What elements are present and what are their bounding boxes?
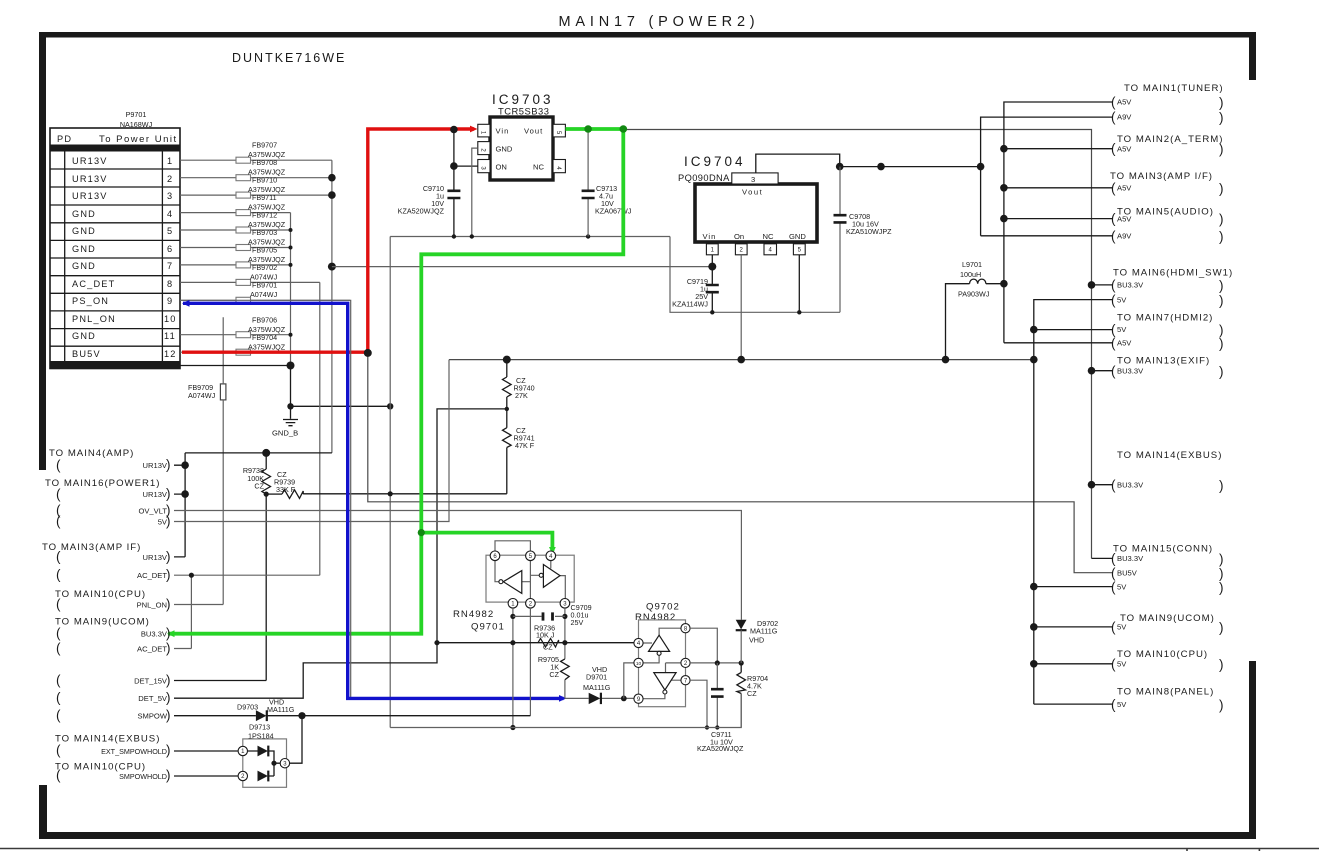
wire ground bus bottom — [390, 694, 741, 728]
svg-text:SMPOW: SMPOW — [137, 712, 167, 721]
svg-text:A5V: A5V — [1117, 339, 1132, 348]
svg-text:(: ( — [56, 673, 61, 688]
pin 7 — [681, 676, 690, 685]
svg-text:(: ( — [1111, 566, 1116, 581]
svg-text:TO MAIN1(TUNER): TO MAIN1(TUNER) — [1124, 83, 1224, 94]
svg-text:(: ( — [56, 487, 61, 502]
svg-text:10: 10 — [164, 314, 177, 324]
svg-text:TO MAIN8(PANEL): TO MAIN8(PANEL) — [1117, 687, 1214, 698]
left port TO MAIN4(AMP) — [49, 448, 171, 473]
svg-text:(: ( — [56, 597, 61, 612]
svg-text:5V: 5V — [1117, 623, 1127, 632]
ground GND_B — [272, 406, 298, 437]
svg-text:TO MAIN13(EXIF): TO MAIN13(EXIF) — [1117, 356, 1210, 367]
wire GND bus — [290, 213, 292, 366]
svg-text:SMPOWHOLD: SMPOWHOLD — [119, 772, 167, 781]
svg-text:ON: ON — [496, 163, 507, 172]
wire GND_B drop — [291, 366, 391, 407]
left port DET_15V — [56, 673, 171, 688]
wire red BU5V — [182, 129, 474, 352]
pin 1 — [508, 599, 518, 609]
svg-text:): ) — [1219, 566, 1224, 581]
svg-text:MAIN17 (POWER2): MAIN17 (POWER2) — [559, 14, 760, 30]
svg-text:27K: 27K — [515, 391, 528, 400]
fuse bead FB9710 — [180, 176, 332, 199]
node divider tap — [505, 407, 509, 411]
svg-text:(: ( — [56, 549, 61, 564]
svg-text:TO MAIN10(CPU): TO MAIN10(CPU) — [55, 762, 146, 773]
Q9701 inverter B — [543, 565, 560, 588]
svg-text:33K F: 33K F — [276, 485, 296, 494]
svg-text:AC_DET: AC_DET — [137, 645, 167, 654]
inductor L9701 — [946, 260, 1004, 360]
fuse bead FB9704 — [180, 333, 368, 355]
svg-text:): ) — [1219, 212, 1224, 227]
svg-text:MA111G: MA111G — [267, 705, 295, 714]
wire UR13V row rail — [174, 453, 332, 557]
svg-text:TO MAIN14(EXBUS): TO MAIN14(EXBUS) — [1117, 450, 1222, 461]
svg-text:): ) — [1219, 698, 1224, 713]
diode D9701 — [565, 665, 634, 704]
capacitor C9711 — [697, 663, 744, 753]
svg-text:): ) — [1219, 364, 1224, 379]
svg-text:(: ( — [1111, 364, 1116, 379]
svg-text:NC: NC — [763, 232, 774, 241]
svg-text:PA903WJ: PA903WJ — [958, 290, 990, 299]
svg-text:): ) — [166, 514, 171, 529]
svg-text:TO MAIN3(AMP I/F): TO MAIN3(AMP I/F) — [1110, 171, 1213, 182]
wire IC9704 ground bus — [670, 237, 840, 313]
wire comparator ref rail — [437, 642, 634, 644]
right port TO MAIN13(EXIF) — [1111, 356, 1224, 380]
pin 4 — [546, 551, 556, 561]
svg-text:(: ( — [56, 514, 61, 529]
svg-text:CZ: CZ — [747, 689, 757, 698]
diode D9702 — [736, 619, 778, 663]
svg-text:(: ( — [1111, 110, 1116, 125]
svg-text:FB9712: FB9712 — [252, 211, 277, 220]
right port TO MAIN3(AMP I/F) — [1110, 171, 1224, 196]
svg-text:DET_5V: DET_5V — [138, 694, 168, 703]
svg-text:3: 3 — [751, 175, 755, 184]
svg-text:To Power Unit: To Power Unit — [99, 134, 178, 145]
svg-text:AC_DET: AC_DET — [137, 571, 167, 580]
svg-text:Vin: Vin — [496, 127, 510, 136]
transistor array Q9702 — [634, 602, 690, 707]
revision table edge — [0, 849, 1319, 851]
right port TO MAIN8(PANEL) — [1111, 687, 1224, 713]
border frame left lower — [39, 785, 47, 839]
svg-text:GND: GND — [72, 331, 96, 341]
svg-text:TO MAIN9(UCOM): TO MAIN9(UCOM) — [55, 617, 150, 628]
right port TO MAIN9(UCOM) — [1111, 613, 1224, 635]
svg-text:25V: 25V — [571, 618, 584, 627]
node red C9710 tap — [450, 126, 458, 134]
wire green branch to Q9701 — [421, 533, 552, 551]
svg-text:2: 2 — [167, 174, 173, 184]
wire divider tap rail — [174, 409, 507, 698]
right port TO MAIN2(A_TERM) — [1111, 134, 1224, 157]
svg-text:A9V: A9V — [1117, 232, 1132, 241]
svg-text:TO MAIN9(UCOM): TO MAIN9(UCOM) — [1120, 613, 1215, 624]
wire AC_DET vertical — [319, 282, 321, 575]
wire EXT_SMPOWHOLD — [174, 750, 238, 752]
border frame left upper — [39, 32, 46, 470]
capacitor C9719 — [672, 255, 719, 312]
wire SMPOWHOLD — [174, 775, 238, 777]
left port TO MAIN14(EXBUS) — [55, 734, 171, 758]
border frame bottom — [39, 832, 1256, 839]
left port TO MAIN10(CPU) — [55, 589, 171, 612]
svg-text:(: ( — [56, 768, 61, 783]
wire GND to table — [180, 365, 291, 367]
wire AC_DET rail — [174, 575, 320, 648]
svg-text:TO MAIN4(AMP): TO MAIN4(AMP) — [49, 448, 134, 459]
wire IC9704 Vout to rail — [756, 154, 840, 173]
svg-text:(: ( — [1111, 620, 1116, 635]
svg-text:): ) — [1219, 293, 1224, 308]
svg-text:UR13V: UR13V — [143, 553, 168, 562]
resistor R9740 — [503, 360, 535, 409]
svg-text:): ) — [1219, 110, 1224, 125]
svg-text:5V: 5V — [1117, 660, 1127, 669]
wire BU5V gray drop — [368, 353, 1113, 573]
wire Q9702 pin7 to ground — [690, 680, 707, 727]
svg-text:(: ( — [1111, 580, 1116, 595]
wire ON pin tie — [454, 165, 478, 167]
svg-text:(: ( — [1111, 478, 1116, 493]
svg-text:11: 11 — [164, 331, 176, 341]
svg-text:): ) — [166, 743, 171, 758]
svg-text:(: ( — [1111, 229, 1116, 244]
svg-text:TO MAIN14(EXBUS): TO MAIN14(EXBUS) — [55, 734, 160, 745]
svg-text:5V: 5V — [1117, 296, 1127, 305]
svg-text:): ) — [1219, 142, 1224, 157]
svg-text:TO MAIN5(AUDIO): TO MAIN5(AUDIO) — [1117, 207, 1214, 218]
svg-text:A5V: A5V — [1117, 184, 1132, 193]
svg-text:): ) — [166, 626, 171, 641]
svg-text:): ) — [1219, 181, 1224, 196]
pin 10 — [634, 658, 643, 667]
svg-text:NC: NC — [533, 163, 544, 172]
svg-text:CZ: CZ — [543, 643, 553, 652]
svg-text:GND: GND — [72, 226, 96, 236]
svg-text:6: 6 — [167, 244, 173, 254]
svg-text:10K J: 10K J — [536, 631, 555, 640]
svg-text:): ) — [1219, 580, 1224, 595]
svg-text:Q9702: Q9702 — [646, 602, 680, 613]
wire blue PS_ON — [183, 303, 564, 698]
left port DET_5V — [56, 690, 171, 705]
wire A9V bus — [981, 117, 1113, 236]
node SMPOW junction — [298, 712, 305, 719]
wire 5V bus — [1034, 300, 1113, 704]
svg-text:TO MAIN6(HDMI_SW1): TO MAIN6(HDMI_SW1) — [1113, 268, 1233, 279]
svg-text:5V: 5V — [1117, 325, 1127, 334]
svg-text:A074WJ: A074WJ — [188, 391, 216, 400]
svg-text:(: ( — [56, 458, 61, 473]
svg-text:BU3.3V: BU3.3V — [1117, 554, 1144, 563]
svg-text:4: 4 — [167, 209, 173, 219]
svg-text:FB9707: FB9707 — [252, 141, 277, 150]
wire A5V bus — [1004, 102, 1113, 343]
wire BU3.3V bus rows — [1092, 285, 1114, 559]
resistor R9738 — [174, 453, 271, 681]
svg-text:GND: GND — [72, 209, 96, 219]
right port TO MAIN5(AUDIO) — [1111, 207, 1224, 245]
resistor R9705 — [538, 655, 569, 698]
svg-text:7: 7 — [167, 261, 173, 271]
diode array D9713 — [238, 723, 289, 788]
border frame right upper — [1249, 32, 1256, 80]
svg-text:8: 8 — [167, 279, 173, 289]
wire R9741 bottom rail — [303, 493, 507, 495]
op-amp IC9704 regulator — [678, 154, 817, 255]
svg-text:): ) — [166, 457, 171, 472]
wire UR13V bus — [331, 160, 333, 453]
right port TO MAIN14(EXBUS) — [1111, 450, 1224, 493]
svg-text:A9V: A9V — [1117, 113, 1132, 122]
svg-text:12: 12 — [164, 349, 177, 359]
svg-text:OV_VLT: OV_VLT — [138, 507, 167, 516]
svg-text:): ) — [166, 549, 171, 564]
node red corner — [364, 349, 372, 357]
diode D9703 — [237, 698, 295, 722]
resistor R9741 — [503, 409, 535, 494]
svg-text:UR13V: UR13V — [72, 156, 108, 166]
svg-text:TO MAIN10(CPU): TO MAIN10(CPU) — [1117, 649, 1208, 660]
pin 3 — [280, 759, 289, 768]
pin 8 — [681, 624, 690, 633]
op-amp IC9703 regulator — [478, 92, 566, 180]
svg-text:UR13V: UR13V — [72, 191, 108, 201]
left port TO MAIN3(AMP IF) — [42, 542, 171, 582]
svg-text:KZA520WJQZ: KZA520WJQZ — [697, 744, 744, 753]
svg-text:(: ( — [56, 708, 61, 723]
wire 5V main rail — [449, 359, 1034, 361]
svg-text:TO MAIN2(A_TERM): TO MAIN2(A_TERM) — [1117, 134, 1223, 145]
left port SMPOW — [56, 708, 171, 723]
right port TO MAIN15(CONN) — [1111, 544, 1224, 596]
svg-text:TO MAIN7(HDMI2): TO MAIN7(HDMI2) — [1117, 313, 1213, 324]
svg-text:GND: GND — [496, 145, 513, 154]
svg-text:KZA114WJ: KZA114WJ — [672, 300, 708, 309]
svg-text:UR13V: UR13V — [143, 490, 168, 499]
svg-text:FB9706: FB9706 — [252, 316, 277, 325]
wire D9701 to Q9702 pin10 — [624, 663, 634, 699]
green arrowhead down — [549, 547, 556, 555]
wire OV_VLT rail — [174, 511, 741, 620]
fuse bead FB9706 — [180, 316, 291, 338]
resistor R9704 — [737, 663, 768, 728]
svg-text:47K F: 47K F — [515, 441, 535, 450]
svg-text:KZA510WJPZ: KZA510WJPZ — [846, 227, 892, 236]
svg-text:TO MAIN16(POWER1): TO MAIN16(POWER1) — [45, 478, 160, 489]
svg-text:(: ( — [1111, 141, 1116, 156]
wire BU3.3V rail to right — [623, 130, 1091, 559]
svg-text:BU3.3V: BU3.3V — [1117, 281, 1144, 290]
svg-text:(: ( — [1111, 551, 1116, 566]
pin 2 — [526, 599, 536, 609]
blue arrowhead right — [559, 695, 567, 702]
svg-text:PNL_ON: PNL_ON — [137, 601, 167, 610]
svg-text:FB9703: FB9703 — [252, 228, 277, 237]
right port TO MAIN7(HDMI2) — [1111, 313, 1224, 352]
svg-text:9: 9 — [167, 296, 173, 306]
wire Q9701 pin1 drop — [512, 608, 514, 727]
svg-text:GND_B: GND_B — [272, 429, 298, 438]
svg-text:3: 3 — [167, 191, 173, 201]
wire Q9701 pin2 drop — [529, 608, 531, 716]
svg-text:BU3.3V: BU3.3V — [1117, 367, 1144, 376]
fuse bead FB9702 — [180, 263, 320, 285]
svg-text:MA111G: MA111G — [750, 627, 778, 636]
fuse bead FB9707 — [180, 141, 332, 164]
svg-text:): ) — [166, 597, 171, 612]
svg-text:FB9710: FB9710 — [252, 176, 277, 185]
svg-text:TCR5SB33: TCR5SB33 — [498, 106, 549, 117]
fuse bead FB9705 — [180, 246, 291, 268]
svg-text:BU3.3V: BU3.3V — [141, 630, 168, 639]
svg-text:FB9701: FB9701 — [252, 281, 277, 290]
svg-text:FB9711: FB9711 — [252, 193, 277, 202]
svg-text:(: ( — [56, 626, 61, 641]
svg-text:(: ( — [1111, 95, 1116, 110]
svg-text:A074WJ: A074WJ — [250, 290, 278, 299]
svg-text:(: ( — [1111, 657, 1116, 672]
capacitor C9709 — [513, 603, 592, 627]
svg-text:): ) — [166, 567, 171, 582]
fuse bead FB9703 — [180, 228, 291, 251]
resistor R9736 — [534, 624, 559, 652]
svg-text:PQ090DNA: PQ090DNA — [678, 173, 730, 183]
svg-text:A5V: A5V — [1117, 145, 1132, 154]
node IC9704 Vin — [708, 263, 716, 271]
svg-text:(: ( — [56, 743, 61, 758]
Q9702 inverter C — [649, 635, 670, 651]
svg-text:A5V: A5V — [1117, 98, 1132, 107]
right port TO MAIN6(HDMI_SW1) — [1111, 268, 1233, 309]
wire ground bus left drop — [389, 237, 391, 728]
wire Q9702 pin2 rail — [690, 662, 741, 664]
svg-text:): ) — [166, 641, 171, 656]
Q9701 inverter A — [503, 571, 522, 594]
svg-text:FB9702: FB9702 — [252, 263, 277, 272]
border frame right lower — [1249, 661, 1256, 839]
svg-text:A5V: A5V — [1117, 215, 1132, 224]
svg-text:GND: GND — [72, 244, 96, 254]
svg-text:): ) — [1219, 620, 1224, 635]
svg-text:GND: GND — [72, 261, 96, 271]
node A9V rail junction — [836, 163, 844, 171]
pin 2 — [238, 771, 247, 780]
fuse bead FB9711 — [180, 193, 291, 216]
svg-text:(: ( — [1111, 697, 1116, 712]
svg-text:BU5V: BU5V — [72, 349, 101, 359]
right port TO MAIN10(CPU) — [1111, 649, 1224, 672]
svg-text:): ) — [1219, 278, 1224, 293]
wire UR13V to IC9704 — [332, 266, 712, 268]
wire ground bus upper — [390, 236, 670, 238]
svg-text:P9701: P9701 — [126, 110, 147, 119]
svg-text:1: 1 — [167, 156, 173, 166]
svg-text:DUNTKE716WE: DUNTKE716WE — [232, 51, 346, 65]
svg-text:): ) — [1219, 95, 1224, 110]
svg-text:GND: GND — [789, 232, 806, 241]
svg-text:(: ( — [1111, 211, 1116, 226]
svg-text:KZA520WJQZ: KZA520WJQZ — [398, 207, 445, 216]
wire SMPOW rail — [174, 715, 530, 717]
svg-text:): ) — [166, 768, 171, 783]
svg-text:): ) — [1219, 478, 1224, 493]
svg-text:FB9708: FB9708 — [252, 158, 277, 167]
svg-text:(: ( — [56, 641, 61, 656]
pin 2 — [681, 658, 690, 667]
green arrowhead left — [167, 630, 175, 637]
svg-text:PS_ON: PS_ON — [72, 296, 109, 306]
fuse bead FB9709 — [188, 383, 226, 400]
wire green BU3.3V — [168, 129, 623, 634]
node GND_B junction — [287, 362, 295, 370]
svg-text:AC_DET: AC_DET — [72, 279, 115, 289]
border frame top — [39, 32, 1256, 38]
svg-text:Vout: Vout — [524, 127, 543, 136]
svg-text:(: ( — [56, 690, 61, 705]
svg-text:): ) — [166, 708, 171, 723]
wire IC9703 GND pin drop — [472, 148, 478, 236]
svg-text:): ) — [1219, 336, 1224, 351]
svg-text:): ) — [166, 486, 171, 501]
svg-text:D9703: D9703 — [237, 703, 258, 712]
pin 4 — [634, 638, 643, 647]
wire 5V left rail — [174, 360, 449, 522]
svg-text:FB9704: FB9704 — [252, 333, 277, 342]
fuse bead FB9701 — [180, 281, 350, 304]
pin 9 — [634, 694, 643, 703]
node D9701 out — [621, 696, 627, 702]
svg-text:CZ: CZ — [549, 670, 559, 679]
fuse bead FB9712 — [180, 211, 291, 234]
svg-text:TO MAIN15(CONN): TO MAIN15(CONN) — [1113, 544, 1213, 555]
svg-text:UR13V: UR13V — [143, 461, 168, 470]
capacitor C9708 — [834, 167, 893, 313]
red arrowhead — [470, 126, 478, 133]
Q9702 inverter D — [654, 673, 676, 690]
blue arrowhead left — [182, 300, 190, 307]
wire PNL_ON vertical — [174, 317, 223, 604]
resistor R9739 — [266, 470, 303, 498]
node green junctions — [584, 125, 592, 133]
svg-text:5V: 5V — [1117, 583, 1127, 592]
svg-text:IC9704: IC9704 — [684, 154, 746, 169]
wire Q9701 pin3 drop — [564, 608, 566, 659]
svg-text:): ) — [1219, 552, 1224, 567]
node R9740 top — [503, 356, 511, 364]
pin 5 — [526, 551, 536, 561]
wire IC9704 GND pin drop — [798, 255, 800, 312]
svg-text:D9713: D9713 — [249, 723, 270, 732]
wire A9V rail — [840, 166, 981, 168]
connector P9701 table — [50, 128, 180, 369]
svg-text:5V: 5V — [1117, 700, 1127, 709]
svg-text:(: ( — [1111, 336, 1116, 351]
svg-text:Q9701: Q9701 — [471, 622, 505, 633]
svg-text:KZA067WJ: KZA067WJ — [595, 207, 632, 216]
svg-text:L9701: L9701 — [962, 260, 982, 269]
left port TO MAIN16(POWER1) — [45, 478, 171, 529]
svg-text:): ) — [166, 690, 171, 705]
svg-text:PNL_ON: PNL_ON — [72, 314, 116, 324]
